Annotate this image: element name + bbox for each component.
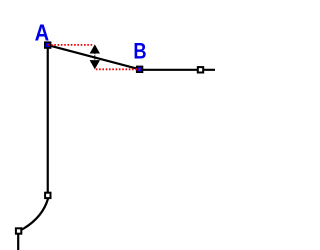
dimension arrow head up bbox=[90, 44, 100, 53]
wire: horizontal segment from node B to right edge bbox=[140, 69, 216, 71]
wire: vertical segment to bottom edge bbox=[17, 231, 19, 250]
svg-text:A: A bbox=[35, 20, 50, 46]
dimension arrow head down bbox=[90, 60, 100, 69]
wire: segment from node A to node B bbox=[48, 45, 140, 69]
open anchor square node 2 bbox=[15, 227, 22, 234]
wire: vertical segment below node A bbox=[47, 45, 49, 199]
open anchor square on right segment bbox=[197, 66, 204, 73]
upper dotted guide line (red) from A bbox=[48, 44, 94, 46]
wire: curved corner segment bbox=[19, 198, 48, 232]
dimension arrow shaft bbox=[94, 53, 96, 62]
open anchor square node 1 bbox=[44, 192, 51, 199]
node B anchor square (filled blue) bbox=[136, 66, 143, 73]
node A anchor square (filled blue) bbox=[44, 41, 51, 48]
lower dotted guide line (red) to B bbox=[96, 68, 141, 70]
svg-text:B: B bbox=[133, 38, 146, 63]
